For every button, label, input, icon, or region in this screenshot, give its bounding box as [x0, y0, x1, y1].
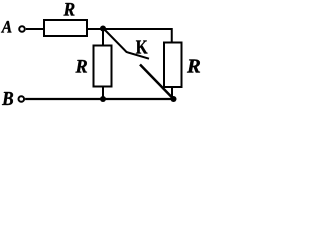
switch K fixed contact wire — [104, 29, 150, 59]
junction node top — [100, 26, 106, 32]
wire R3 bottom stub — [171, 87, 173, 99]
junction node bottom right — [171, 96, 177, 102]
resistor R3 — [164, 43, 182, 88]
junction node bottom left — [100, 96, 106, 102]
label R2 value R — [76, 60, 88, 72]
switch K blade open — [140, 65, 174, 100]
wire R1 to top-right corner and down to R3 — [88, 29, 172, 43]
node A label — [1, 21, 11, 33]
node B label — [2, 92, 13, 105]
label R1 value R — [64, 3, 75, 15]
label R3 value R — [187, 60, 200, 73]
terminal A — [19, 26, 25, 32]
resistor R1 — [44, 20, 87, 36]
wire bottom B to junction right — [25, 98, 173, 100]
wire junction down to R2 — [102, 29, 104, 46]
wire R2 to bottom — [102, 86, 104, 99]
resistor R2 — [94, 46, 112, 87]
label switch K — [136, 41, 148, 54]
wire A to R1 — [26, 28, 44, 30]
terminal B — [19, 96, 25, 102]
